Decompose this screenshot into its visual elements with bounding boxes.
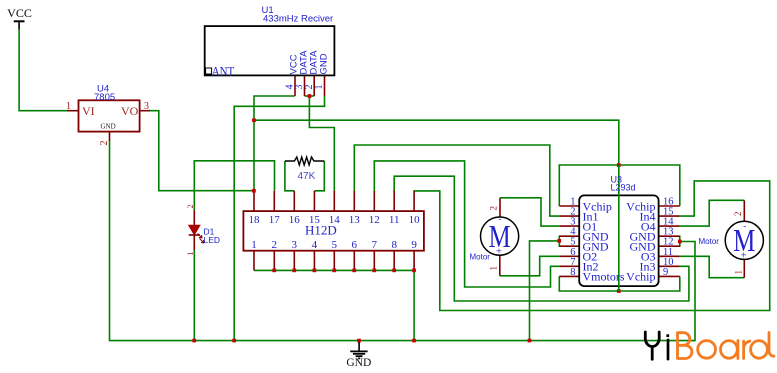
label U3 reference	[611, 175, 623, 185]
svg-text:1: 1	[733, 270, 743, 275]
junction U3 top Vchip	[617, 163, 621, 167]
junction U3 bottom Vmotors	[617, 289, 621, 293]
svg-text:6: 6	[352, 239, 358, 251]
svg-text:Motor: Motor	[699, 237, 720, 246]
wire net O3 from U3 pin 11 to right motor pin 1	[680, 256, 745, 277]
wire resistor R1 left lead loop to H12D pin 16	[285, 161, 294, 191]
label D1 value LED	[204, 235, 221, 245]
labels U3 right pin names	[626, 199, 656, 283]
svg-text:7: 7	[372, 239, 378, 251]
labels H12D top pin numbers 18-10	[249, 214, 421, 226]
svg-text:12: 12	[369, 214, 380, 226]
pin stubs U3 left pins 1-8	[559, 206, 579, 276]
pin stub right motor pin 2	[743, 200, 745, 221]
junction rail at H12D bus drop	[412, 339, 416, 343]
svg-text:1: 1	[186, 252, 195, 256]
svg-text:1: 1	[489, 266, 499, 271]
label right motor pin number 1	[733, 270, 743, 275]
svg-text:3: 3	[292, 239, 298, 251]
ground symbol GND	[346, 342, 371, 369]
pin stubs U3 right pins 16-9	[658, 206, 679, 276]
junction U1 DATA pins 2,3	[308, 94, 312, 98]
wire net VCC to U4 pin 1	[19, 29, 67, 111]
svg-text:2: 2	[489, 206, 499, 211]
svg-text:VI: VI	[82, 104, 95, 118]
label left motor	[470, 253, 491, 262]
svg-text:1: 1	[66, 101, 71, 112]
svg-text:47K: 47K	[298, 171, 316, 182]
label R1 value 47K	[298, 171, 316, 182]
svg-text:-: -	[743, 221, 746, 231]
wire net O4 from U3 pin 14 to right motor pin 2	[680, 200, 745, 226]
pin stub U4 pin 2	[109, 131, 111, 140]
wire net LED D1 cathode to ground rail	[193, 250, 195, 341]
label U1 pin number 3	[294, 85, 305, 90]
wire net GND left from U3 pins 4,5 to rail	[530, 241, 560, 341]
logo YiBoard	[645, 332, 774, 359]
svg-text:VCC: VCC	[7, 6, 32, 20]
pin stub U1 pin 1	[324, 76, 326, 96]
labels U3 left pin names	[583, 199, 625, 283]
label U1 pin name DATA	[299, 50, 310, 75]
wire net D11 H12D pin 12 to U3 In2 pin 7	[374, 161, 559, 287]
label U1 ANT	[212, 65, 235, 79]
right motor body	[725, 221, 763, 262]
svg-text:LED: LED	[204, 235, 221, 245]
pin stubs H12D bottom pins 1-9	[254, 251, 414, 271]
label H12D value	[305, 223, 337, 238]
wire net ground bus under H12D pins 1-9	[254, 270, 414, 340]
label U4 pin name GND	[101, 123, 116, 131]
junction rail at LED cathode	[192, 339, 196, 343]
pin stub left motor pin 1	[499, 255, 501, 276]
label U1 pin name GND	[319, 53, 330, 74]
label U4 pin number 1	[66, 101, 71, 112]
svg-text:9: 9	[411, 239, 417, 251]
svg-text:15: 15	[309, 214, 321, 226]
label U1 reference	[262, 5, 274, 16]
junction rail at GND symbol	[357, 339, 361, 343]
label U4 pin name VO	[121, 104, 139, 118]
label U4 pin number 2	[99, 141, 110, 146]
svg-text:+: +	[741, 250, 747, 262]
svg-text:L293d: L293d	[611, 183, 636, 193]
left motor body	[481, 214, 519, 258]
resistor R1 47K	[285, 157, 324, 165]
svg-text:17: 17	[269, 214, 281, 226]
label D1 pin number 1	[186, 252, 195, 256]
svg-text:11: 11	[389, 214, 400, 226]
svg-text:1: 1	[251, 239, 257, 251]
svg-text:GND: GND	[101, 123, 116, 131]
labels U3 right pin numbers 16-9	[663, 197, 674, 278]
svg-text:5: 5	[332, 239, 338, 251]
labels H12D bottom pin numbers 1-9	[251, 239, 417, 251]
svg-text:2: 2	[186, 205, 195, 209]
label U4 value 7805	[94, 92, 115, 103]
wire net GND rail with right riser to U3 pin 12	[110, 140, 696, 341]
label left motor pin number 1	[489, 266, 499, 271]
label right motor pin number 2	[733, 212, 743, 217]
wire tie U3 pins 13,12	[679, 236, 681, 247]
label U3 value L293d	[611, 183, 636, 193]
power symbol VCC	[7, 6, 32, 30]
label U4 reference	[97, 84, 109, 95]
svg-text:16: 16	[289, 214, 301, 226]
svg-text:+: +	[496, 246, 502, 258]
wire net +5V vertical riser to U1 pin 4	[254, 96, 295, 191]
label right motor	[699, 237, 720, 246]
svg-text:8: 8	[391, 239, 397, 251]
433mHz receiver U1 body	[205, 26, 335, 75]
wire net O1 from U3 pin 3 to left motor pin 2	[500, 198, 559, 226]
junction U3 GND right pins 13,12	[678, 240, 682, 244]
pin stub U1 pin 4	[294, 76, 296, 96]
junction rail at U3 GND left drop	[528, 339, 532, 343]
wire +5V through U3 body	[618, 165, 620, 291]
wire net D12 H12D pin 11 to U3 In3 pin 10	[394, 176, 689, 301]
wire net DATA to H12D pin 14	[309, 96, 334, 192]
wire net DATA tie U1 pins 2,3	[305, 95, 315, 97]
wire net +5V east feed to U3	[254, 120, 619, 165]
svg-text:GND: GND	[319, 53, 330, 74]
wire net O2 from U3 pin 6 to left motor pin 1	[500, 256, 560, 276]
wire resistor R1 right lead loop to H12D pin 15	[314, 161, 324, 191]
motor driver U3 body L293d	[579, 195, 658, 286]
svg-text:10: 10	[409, 214, 421, 226]
wire tie U3 pins 4,5	[558, 236, 560, 247]
svg-text:13: 13	[349, 214, 361, 226]
svg-text:8: 8	[570, 267, 575, 278]
label D1 reference	[204, 227, 215, 237]
pin stub right motor pin 1	[743, 259, 745, 278]
svg-text:Motor: Motor	[470, 253, 491, 262]
label U1 pin name DATA	[308, 50, 319, 75]
svg-text:GND: GND	[346, 357, 371, 369]
svg-text:2: 2	[99, 141, 110, 146]
svg-text:-: -	[499, 214, 502, 224]
label U1 pin number 2	[304, 85, 315, 90]
svg-text:18: 18	[249, 214, 261, 226]
wire net VT from LED D1 anode to H12D pin 17	[194, 161, 274, 210]
label U1 pin number 4	[285, 85, 296, 90]
wire net Vchip top rail of U3	[559, 165, 680, 206]
pin stub U1 pin 2	[313, 76, 315, 96]
svg-text:Vchip: Vchip	[626, 270, 655, 284]
label U1 value 433mHz Reciver	[263, 14, 333, 25]
wire net GND from U1 pin 1 to ground rail	[234, 96, 324, 341]
labels U3 left pin numbers 1-8	[570, 197, 576, 278]
label U1 pin number 1	[314, 85, 325, 90]
junction +5V at H12D pin 18	[252, 189, 256, 193]
svg-text:4: 4	[312, 239, 318, 251]
label U4 pin name VI	[82, 104, 95, 118]
svg-text:1: 1	[314, 85, 325, 90]
voltage regulator U4 body 7805	[79, 100, 140, 131]
svg-text:VO: VO	[121, 104, 139, 118]
label left motor pin number 2	[489, 206, 499, 211]
svg-text:Vmotors: Vmotors	[583, 270, 625, 284]
label U4 pin number 3	[144, 101, 149, 112]
wire net Vmotors bottom rail of U3 pins 8 and 9	[559, 276, 680, 291]
decoder H12D body	[243, 211, 424, 251]
junction rail at U1 GND drop	[232, 339, 236, 343]
pin stub U4 pin 1	[67, 110, 79, 112]
svg-text:ANT: ANT	[212, 65, 235, 79]
label U1 pin name VCC	[289, 54, 300, 74]
svg-text:3: 3	[144, 101, 149, 112]
LED D1	[189, 210, 204, 250]
junction +5V split A	[252, 118, 256, 122]
svg-text:14: 14	[329, 214, 341, 226]
svg-text:433mHz Reciver: 433mHz Reciver	[263, 14, 333, 25]
pin stub U1 pin 3	[304, 76, 306, 96]
pin stubs H12D top pins 18-10	[254, 191, 414, 212]
wire net +5V from U4 pin 3 to junction A	[149, 111, 254, 191]
wire net D10 H12D pin 13 to U3 In1 pin 2	[354, 145, 559, 216]
svg-text:9: 9	[663, 267, 668, 278]
pin stub left motor pin 2	[499, 198, 501, 218]
svg-text:7805: 7805	[94, 92, 115, 103]
junctions H12D ground bus pins 2-9	[272, 269, 416, 273]
pin stub U4 pin 3	[139, 110, 149, 112]
junction U3 GND left pins 4,5	[557, 239, 561, 243]
label D1 pin number 2	[186, 205, 195, 209]
wire net D13 H12D pin 10 to U3 In4 pin 15	[414, 181, 770, 311]
svg-text:2: 2	[272, 239, 278, 251]
svg-text:2: 2	[733, 212, 743, 217]
